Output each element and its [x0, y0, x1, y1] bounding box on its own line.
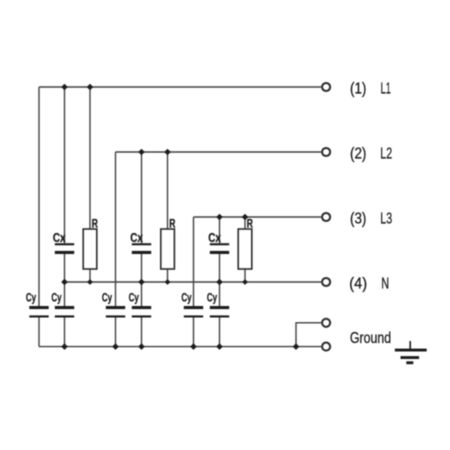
svg-text:(2): (2) [350, 146, 366, 163]
terminal (2) L2 [322, 146, 392, 163]
junction N-R2 [165, 279, 171, 285]
capacitor Cy3 [102, 290, 125, 317]
capacitor Cy1 [26, 290, 49, 317]
terminal (4) N [322, 276, 389, 293]
wire L1 drop B (through Cx1 to N and Cy2) [64, 87, 66, 347]
junction N-Cx3 [216, 279, 223, 286]
junction bus-Cy3 [112, 343, 119, 350]
svg-text:(3): (3) [350, 211, 366, 228]
wire L1 drop C (through R1 to N) [89, 87, 91, 282]
svg-text:L1: L1 [381, 81, 391, 98]
junction L1-C [87, 84, 94, 91]
wire L3 drop C (through R3 to N) [244, 217, 246, 282]
svg-text:Cy: Cy [102, 290, 112, 304]
terminal (3) L3 [322, 211, 392, 228]
svg-text:R: R [247, 217, 253, 231]
wire L2 drop C (through R2 to N) [167, 152, 169, 282]
svg-text:L3: L3 [380, 211, 392, 228]
junction bus-Cy5 [190, 343, 197, 350]
junction bus-Cy6 [216, 343, 223, 350]
capacitor Cy5 [181, 290, 203, 317]
junction L1-B [61, 84, 68, 91]
junction N-Cx1 [61, 279, 68, 286]
wire ground bus [39, 346, 321, 348]
svg-text:Cx: Cx [53, 230, 66, 245]
terminal (1) L1 [322, 81, 391, 98]
svg-text:R: R [92, 217, 98, 231]
junction N-Cx2 [138, 279, 145, 286]
wire L2 drop A (to Cy3) [115, 152, 117, 347]
junction N-R3 [242, 279, 248, 285]
svg-text:(1): (1) [350, 81, 366, 98]
capacitor Cy4 [129, 290, 152, 317]
wire L1 horizontal [39, 86, 321, 88]
svg-text:N: N [381, 276, 389, 293]
junction L2-B [138, 149, 145, 156]
svg-text:Cy: Cy [181, 290, 191, 304]
svg-text:Cx: Cx [208, 230, 221, 245]
junction L3-B [216, 214, 223, 221]
junction bus-Cy2 [61, 343, 68, 350]
capacitor Cx3 [208, 230, 229, 254]
wire L3 horizontal [194, 216, 322, 218]
resistor R2 [161, 217, 176, 269]
junction bus-Cy4 [138, 343, 145, 350]
wire L3 drop B (through Cx3 to N and Cy6) [219, 217, 221, 347]
wire L3 drop A (to Cy5) [193, 217, 195, 347]
svg-text:Cx: Cx [130, 230, 143, 245]
svg-text:Cy: Cy [26, 290, 36, 304]
terminal Ground upper [322, 319, 330, 327]
wire L1 drop A (to Cy1) [38, 87, 40, 347]
capacitor Cx1 [53, 230, 74, 254]
wire N horizontal [65, 281, 322, 283]
svg-text:L2: L2 [380, 146, 392, 163]
wire L2 drop B (through Cx2 to N and Cy4) [141, 152, 143, 347]
wire L2 horizontal [116, 151, 322, 153]
svg-text:Cy: Cy [207, 290, 217, 304]
resistor R3 [238, 217, 253, 269]
resistor R1 [83, 217, 98, 269]
terminal Ground lower [322, 330, 391, 351]
svg-text:Ground: Ground [350, 330, 391, 347]
svg-text:(4): (4) [349, 276, 367, 293]
svg-text:Cy: Cy [51, 290, 61, 304]
junction N-R1 [87, 279, 93, 285]
capacitor Cy6 [207, 290, 229, 317]
svg-text:Cy: Cy [129, 290, 139, 304]
capacitor Cx2 [130, 230, 151, 254]
wire ground terminal link [296, 323, 321, 347]
junction L2-C [164, 149, 171, 156]
svg-text:R: R [169, 217, 175, 231]
ground symbol [395, 341, 427, 364]
junction bus-ground link [293, 343, 300, 350]
junction L3-C [242, 214, 249, 221]
capacitor Cy2 [51, 290, 74, 317]
